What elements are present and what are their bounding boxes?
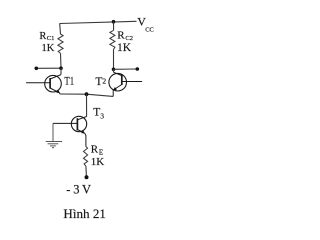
node collector junction T1 xyxy=(59,66,63,70)
wire output stub left xyxy=(36,67,61,69)
node emitter junction xyxy=(85,92,89,96)
svg-text:T1: T1 xyxy=(64,75,74,87)
transistor T3 xyxy=(53,116,87,146)
svg-text:T: T xyxy=(95,76,102,88)
wire emitter bus xyxy=(60,94,113,96)
wire right rail upper xyxy=(113,22,115,31)
svg-text:1K: 1K xyxy=(91,156,105,168)
resistor RC1 xyxy=(58,34,63,53)
wire collector drop T1 xyxy=(60,68,62,74)
resistor RC2 xyxy=(110,30,115,49)
svg-text:CC: CC xyxy=(145,27,154,34)
wire left rail lower xyxy=(60,53,63,68)
transistor T2 xyxy=(109,72,142,96)
wire right rail lower xyxy=(113,50,115,70)
svg-text:C1: C1 xyxy=(47,35,55,42)
svg-text:2: 2 xyxy=(102,76,106,85)
svg-text:1K: 1K xyxy=(117,42,132,54)
svg-text:1K: 1K xyxy=(42,43,55,54)
resistor RE xyxy=(84,147,88,167)
svg-text:-: - xyxy=(66,183,70,197)
svg-text:T: T xyxy=(93,107,100,119)
svg-text:R: R xyxy=(39,31,46,42)
node -3V terminal xyxy=(85,175,89,179)
ground xyxy=(46,123,62,147)
transistor T1 xyxy=(26,75,61,94)
node collector junction T2 xyxy=(112,68,116,72)
wire output stub right xyxy=(114,68,138,70)
svg-text:R: R xyxy=(91,144,99,156)
wire tail drop to T3 xyxy=(86,94,88,116)
svg-text:V: V xyxy=(82,183,91,197)
node output terminal left xyxy=(35,67,39,71)
svg-text:3: 3 xyxy=(73,183,79,197)
svg-text:Hình 21: Hình 21 xyxy=(63,206,106,221)
wire top rail xyxy=(60,21,137,23)
wire left rail upper xyxy=(59,24,62,35)
svg-text:R: R xyxy=(117,30,125,42)
svg-text:C2: C2 xyxy=(125,35,133,42)
node Vcc junction xyxy=(112,20,116,24)
wire below RE xyxy=(85,166,88,176)
wire collector drop T2 xyxy=(113,69,115,72)
svg-text:3: 3 xyxy=(100,112,104,121)
node output terminal right xyxy=(136,67,140,71)
